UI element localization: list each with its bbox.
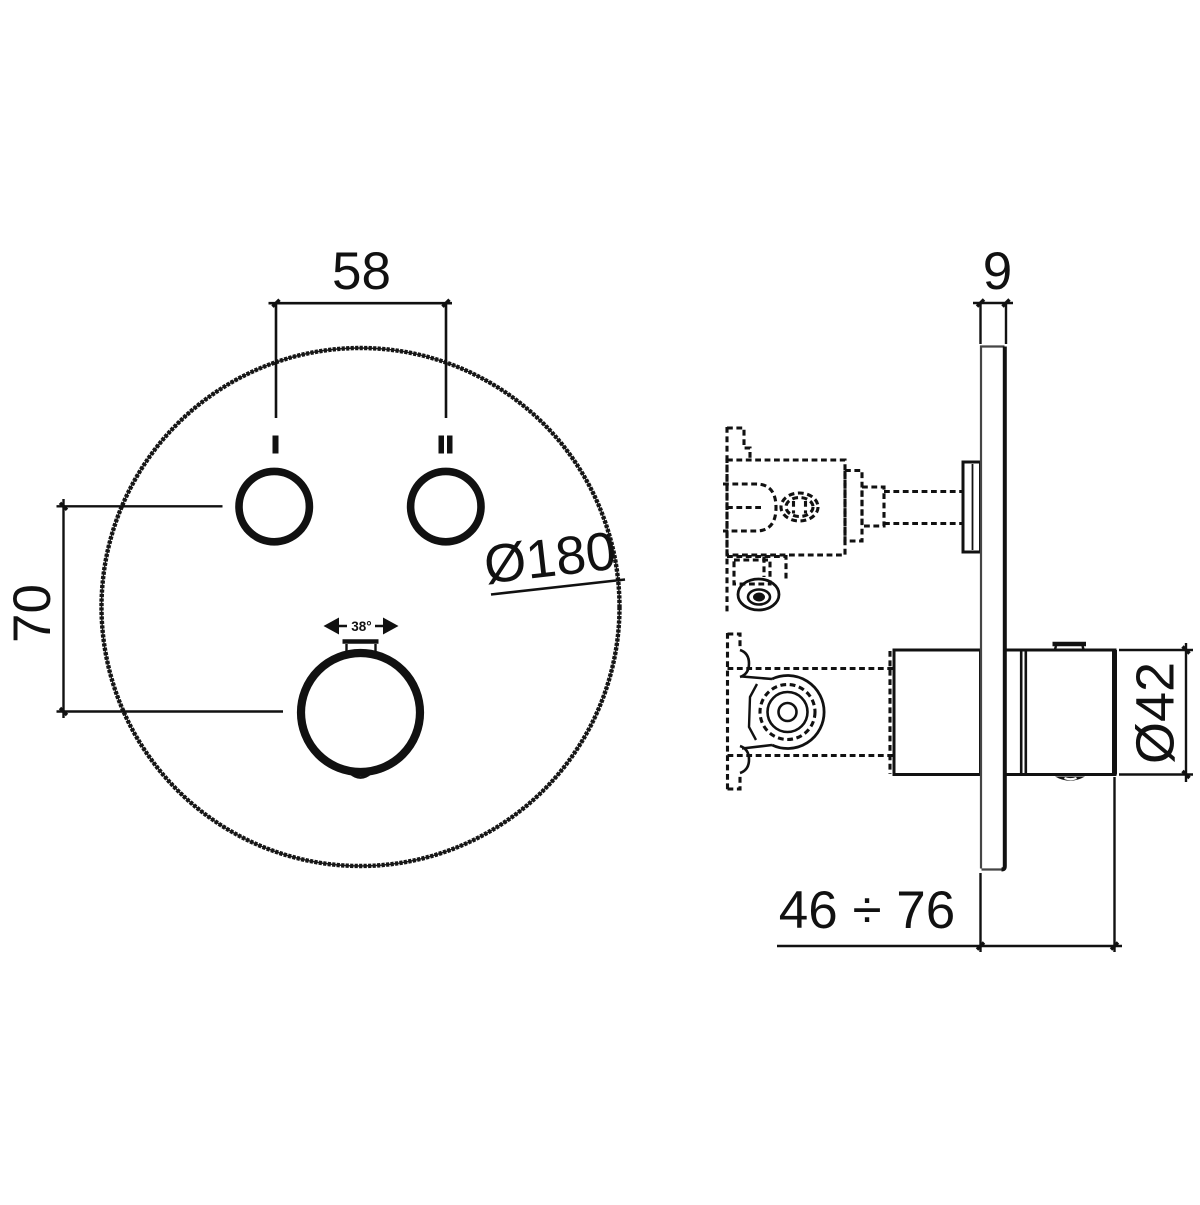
svg-text:70: 70	[3, 584, 62, 643]
svg-text:9: 9	[983, 242, 1012, 301]
svg-text:58: 58	[332, 242, 391, 301]
svg-text:38°: 38°	[351, 619, 371, 634]
svg-text:Ø42: Ø42	[1125, 662, 1185, 764]
svg-text:46 ÷ 76: 46 ÷ 76	[779, 881, 955, 940]
